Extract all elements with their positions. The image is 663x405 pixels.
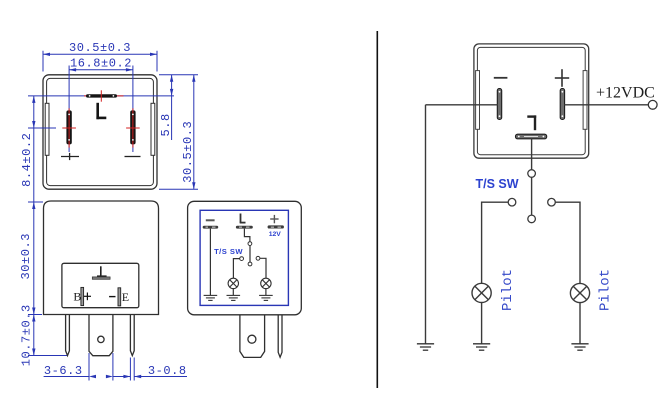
lamp mid right	[261, 278, 271, 288]
wire right contact to lamp	[555, 202, 580, 283]
label L	[96, 103, 106, 119]
wire right contact to lamp	[260, 258, 266, 278]
wire L to switch	[244, 229, 250, 242]
left clip notch	[45, 103, 49, 155]
svg-text:12V: 12V	[269, 231, 282, 238]
relay L slot	[516, 134, 547, 139]
svg-text:Pilot: Pilot	[500, 269, 516, 311]
relay left notch	[476, 71, 480, 130]
lamp left ground wire	[481, 303, 483, 344]
slot row centerline stub	[28, 127, 56, 129]
right pin	[130, 315, 134, 356]
top view body	[43, 75, 157, 189]
svg-text:10.7±0.3: 10.7±0.3	[20, 304, 34, 366]
svg-text:3-0.8: 3-0.8	[148, 364, 187, 378]
switch top circle	[528, 170, 536, 178]
relay L mark	[527, 115, 536, 130]
svg-text:30.5±0.3: 30.5±0.3	[181, 121, 195, 183]
wire right to +12VDC	[564, 104, 648, 106]
lamp mid left	[228, 278, 238, 288]
svg-text:E: E	[122, 290, 129, 304]
center blade pin	[89, 315, 113, 356]
label plate	[62, 263, 139, 307]
bottom view body	[188, 201, 302, 314]
lamp left Pilot	[472, 283, 491, 302]
bv plus terminal	[268, 215, 284, 229]
B terminal	[73, 287, 91, 305]
blade end	[248, 262, 252, 266]
ground lamp left	[473, 344, 490, 350]
switch blade right	[531, 177, 533, 215]
plate ground mark	[92, 266, 110, 279]
wire left contact to lamp	[233, 259, 239, 279]
bv L terminal	[236, 214, 253, 229]
lamp right Pilot	[570, 283, 589, 302]
ground mid left	[204, 295, 218, 300]
switch blade	[249, 246, 251, 263]
svg-text:T/S SW: T/S SW	[214, 247, 243, 256]
relay U1 body	[474, 44, 589, 158]
ground mid lamp left	[227, 295, 241, 300]
lamp ground wires mid	[232, 289, 234, 296]
left pin	[66, 315, 70, 356]
svg-text:8.4±0.2: 8.4±0.2	[20, 133, 34, 187]
relay minus label	[494, 77, 508, 79]
centerline through L slot	[28, 95, 174, 97]
section divider	[376, 31, 378, 388]
+12VDC terminal circle	[648, 100, 657, 109]
dim 16.8	[69, 57, 133, 72]
left dim column	[19, 96, 67, 366]
plus slot	[62, 66, 76, 153]
label plus	[61, 153, 79, 160]
svg-text:3-6.3: 3-6.3	[44, 364, 83, 378]
relay plus label	[555, 69, 569, 87]
svg-text:Pilot: Pilot	[598, 269, 614, 311]
dim 5.8	[159, 75, 173, 140]
relay right notch	[583, 71, 587, 130]
wire left horizontal	[426, 104, 498, 106]
dim 30.5 right height	[159, 75, 198, 189]
ground left wire	[417, 344, 434, 350]
label minus	[125, 156, 141, 158]
dim 30.5 top width	[43, 41, 157, 72]
left contact	[240, 257, 244, 261]
ground mid lamp right	[259, 295, 273, 300]
bv right pin	[278, 315, 282, 357]
inner blue frame	[200, 210, 288, 305]
E terminal	[109, 288, 129, 306]
lamp right ground wire	[579, 303, 581, 344]
ground lamp right	[571, 344, 588, 350]
svg-text:+12VDC: +12VDC	[596, 85, 655, 102]
minus slot	[126, 66, 140, 153]
right clip notch	[151, 103, 155, 155]
wire L down	[531, 139, 533, 170]
svg-text:16.8±0.2: 16.8±0.2	[70, 57, 132, 71]
front view body	[44, 201, 159, 315]
svg-text:30.5±0.3: 30.5±0.3	[69, 41, 131, 55]
svg-text:B: B	[73, 290, 81, 304]
wire left vertical	[425, 105, 427, 344]
right contact circle	[548, 198, 556, 206]
right contact	[256, 256, 260, 260]
svg-text:5.8: 5.8	[159, 113, 173, 136]
L slot	[86, 90, 117, 101]
switch pivot	[248, 242, 252, 246]
relay minus slot	[497, 89, 501, 120]
relay plus slot	[560, 89, 564, 120]
bottom dims	[44, 353, 187, 381]
wire left contact to lamp	[482, 202, 509, 283]
wire minus to ground	[209, 229, 211, 296]
switch blade end circle	[528, 215, 536, 223]
left contact circle	[508, 198, 516, 206]
svg-text:30±0.3: 30±0.3	[19, 233, 33, 280]
svg-text:T/S SW: T/S SW	[476, 177, 519, 191]
bv minus terminal	[203, 220, 219, 228]
bv blade pin	[240, 315, 265, 358]
